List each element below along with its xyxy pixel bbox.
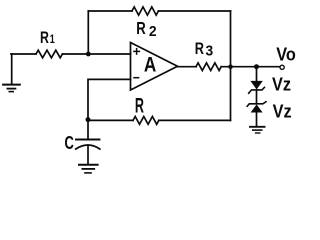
node A [86, 52, 91, 57]
svg-text:1: 1 [50, 33, 55, 47]
ground [3, 54, 20, 92]
wire [256, 90, 258, 104]
node B [86, 117, 91, 122]
wire [62, 53, 130, 55]
zener diode D2 [247, 102, 266, 113]
wire [88, 79, 131, 120]
wire [230, 11, 232, 120]
wire [256, 67, 258, 81]
svg-text:R: R [135, 93, 144, 117]
svg-text:A: A [144, 53, 156, 77]
svg-text:Vz: Vz [273, 100, 292, 121]
wire [178, 66, 197, 68]
wire [159, 119, 231, 121]
resistor R1 [36, 50, 62, 58]
op-amp A [131, 43, 178, 91]
label A [144, 53, 156, 77]
wire [88, 119, 133, 121]
label R2 [136, 19, 156, 40]
wire [11, 53, 36, 55]
svg-text:C: C [65, 134, 75, 154]
svg-text:3: 3 [206, 42, 214, 58]
label Vz [273, 100, 292, 121]
resistor R3 [196, 63, 221, 71]
terminal Vo [280, 65, 284, 69]
label C [65, 134, 75, 154]
svg-text:Vo: Vo [276, 44, 296, 65]
zener diode D1 [249, 81, 265, 93]
ground [250, 127, 265, 133]
wire [88, 10, 132, 12]
label Vo [276, 44, 296, 65]
svg-text:R: R [40, 29, 49, 47]
wire [87, 11, 89, 54]
svg-text:Vz: Vz [272, 74, 291, 95]
wire [158, 10, 230, 12]
svg-text:R: R [136, 19, 145, 38]
label R3 [195, 39, 214, 58]
ground [79, 165, 98, 173]
svg-text:2: 2 [149, 24, 157, 40]
label R [135, 93, 144, 117]
wire [256, 113, 258, 127]
wire [221, 66, 279, 68]
node D [254, 64, 259, 69]
resistor R2 [132, 7, 158, 15]
node C [228, 64, 233, 69]
label R1 [40, 29, 55, 47]
resistor R [133, 117, 159, 125]
label Vz [272, 74, 291, 95]
capacitor C [76, 120, 100, 164]
svg-text:R: R [195, 39, 204, 58]
